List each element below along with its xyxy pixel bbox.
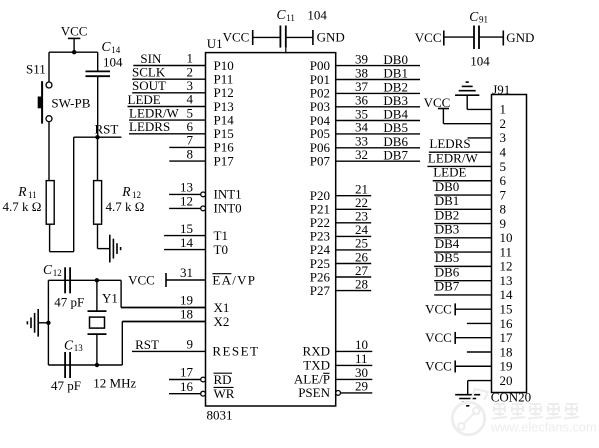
svg-text:18: 18 [500,344,513,359]
svg-text:R: R [17,184,27,199]
svg-text:19: 19 [500,359,513,374]
svg-text:91: 91 [479,15,488,25]
svg-text:P07: P07 [310,154,331,169]
svg-text:DB0: DB0 [435,179,460,194]
svg-text:RESET: RESET [212,344,259,359]
svg-text:DB1: DB1 [383,66,408,81]
svg-text:17: 17 [180,365,194,380]
svg-text:104: 104 [307,7,327,22]
svg-text:38: 38 [355,65,368,80]
svg-text:12: 12 [53,268,62,278]
svg-text:P27: P27 [310,283,331,298]
svg-text:1: 1 [500,102,507,117]
svg-text:DB7: DB7 [435,279,460,294]
svg-text:WR: WR [214,386,235,401]
svg-text:T1: T1 [214,228,228,243]
svg-text:16: 16 [180,379,194,394]
svg-text:5: 5 [500,159,507,174]
svg-text:8: 8 [500,202,507,217]
svg-text:7: 7 [500,187,507,202]
svg-text:X1: X1 [214,300,230,315]
svg-text:3: 3 [500,130,507,145]
svg-text:U1: U1 [207,36,223,51]
svg-text:14: 14 [500,287,514,302]
svg-text:VCC: VCC [128,273,155,288]
svg-text:DB5: DB5 [435,250,460,265]
svg-text:VCC: VCC [61,24,88,39]
svg-text:DB0: DB0 [383,52,408,67]
svg-text:14: 14 [180,235,194,250]
svg-text:12 MHz: 12 MHz [93,376,136,391]
svg-text:29: 29 [355,379,368,394]
svg-text:P17: P17 [214,153,235,168]
svg-text:31: 31 [180,265,193,280]
svg-text:GND: GND [317,30,345,45]
svg-text:X2: X2 [214,314,230,329]
svg-text:www.elecfans.com: www.elecfans.com [490,420,597,435]
svg-text:17: 17 [500,330,514,345]
svg-text:47 pF: 47 pF [54,294,84,309]
svg-text:C: C [64,337,74,352]
svg-text:Y1: Y1 [102,291,118,306]
svg-text:J91: J91 [492,82,510,97]
svg-text:C: C [102,39,112,54]
svg-text:RD: RD [214,372,232,387]
svg-text:T0: T0 [214,242,228,257]
svg-text:R: R [121,184,131,199]
svg-text:DB1: DB1 [435,193,460,208]
svg-text:47 pF: 47 pF [51,378,81,393]
svg-text:13: 13 [180,180,193,195]
svg-text:12: 12 [180,194,193,209]
svg-text:LEDR/W: LEDR/W [428,150,479,165]
svg-text:4: 4 [500,145,507,160]
svg-text:DB7: DB7 [383,147,408,162]
svg-text:RXD: RXD [303,344,330,359]
svg-text:6: 6 [500,173,507,188]
svg-text:DB5: DB5 [383,120,408,135]
svg-text:8: 8 [187,146,194,161]
svg-text:DB2: DB2 [435,207,460,222]
svg-text:20: 20 [500,373,513,388]
svg-text:VCC: VCC [425,301,452,316]
svg-text:11: 11 [500,244,513,259]
svg-text:LEDRS: LEDRS [429,136,470,151]
svg-text:C: C [469,9,479,24]
svg-text:11: 11 [355,351,368,366]
svg-text:12: 12 [500,259,513,274]
svg-text:9: 9 [500,216,507,231]
svg-text:VCC: VCC [425,330,452,345]
svg-text:P05: P05 [310,126,330,141]
svg-text:RST: RST [135,337,159,352]
svg-text:CON20: CON20 [491,389,531,404]
svg-text:VCC: VCC [415,30,442,45]
svg-text:C: C [43,262,53,277]
svg-text:8031: 8031 [207,408,233,423]
svg-text:S11: S11 [26,61,46,76]
svg-text:104: 104 [103,55,123,70]
svg-text:INT1: INT1 [214,187,242,202]
svg-text:GND: GND [506,30,534,45]
svg-text:28: 28 [355,276,368,291]
svg-text:DB3: DB3 [435,222,460,237]
svg-text:VCC: VCC [223,30,250,45]
svg-text:14: 14 [111,45,121,55]
svg-text:18: 18 [180,307,193,322]
svg-text:EA/VP: EA/VP [212,272,256,287]
svg-text:9: 9 [187,337,194,352]
svg-text:SW-PB: SW-PB [51,95,90,110]
svg-text:DB4: DB4 [435,236,460,251]
svg-text:C: C [277,7,287,22]
svg-text:11: 11 [286,13,295,23]
svg-text:VCC: VCC [425,358,452,373]
svg-text:10: 10 [355,337,368,352]
svg-text:32: 32 [355,147,368,162]
svg-text:4.7 k Ω: 4.7 k Ω [3,199,42,214]
svg-text:4.7 k Ω: 4.7 k Ω [106,199,145,214]
svg-text:LEDRS: LEDRS [129,119,170,134]
svg-text:TXD: TXD [303,358,330,373]
svg-text:39: 39 [355,51,368,66]
svg-text:34: 34 [355,120,369,135]
svg-text:15: 15 [500,301,513,316]
svg-text:19: 19 [180,293,193,308]
svg-text:10: 10 [500,230,513,245]
svg-text:P00: P00 [310,58,330,73]
svg-text:104: 104 [470,54,490,69]
svg-text:LEDE: LEDE [433,165,466,180]
svg-text:15: 15 [180,221,193,236]
svg-text:13: 13 [500,273,513,288]
svg-text:13: 13 [74,343,84,353]
svg-text:DB6: DB6 [435,264,460,279]
svg-text:P01: P01 [310,72,330,87]
svg-text:2: 2 [500,116,507,131]
svg-text:16: 16 [500,316,514,331]
svg-text:INT0: INT0 [214,201,242,216]
svg-text:PSEN: PSEN [298,385,330,400]
